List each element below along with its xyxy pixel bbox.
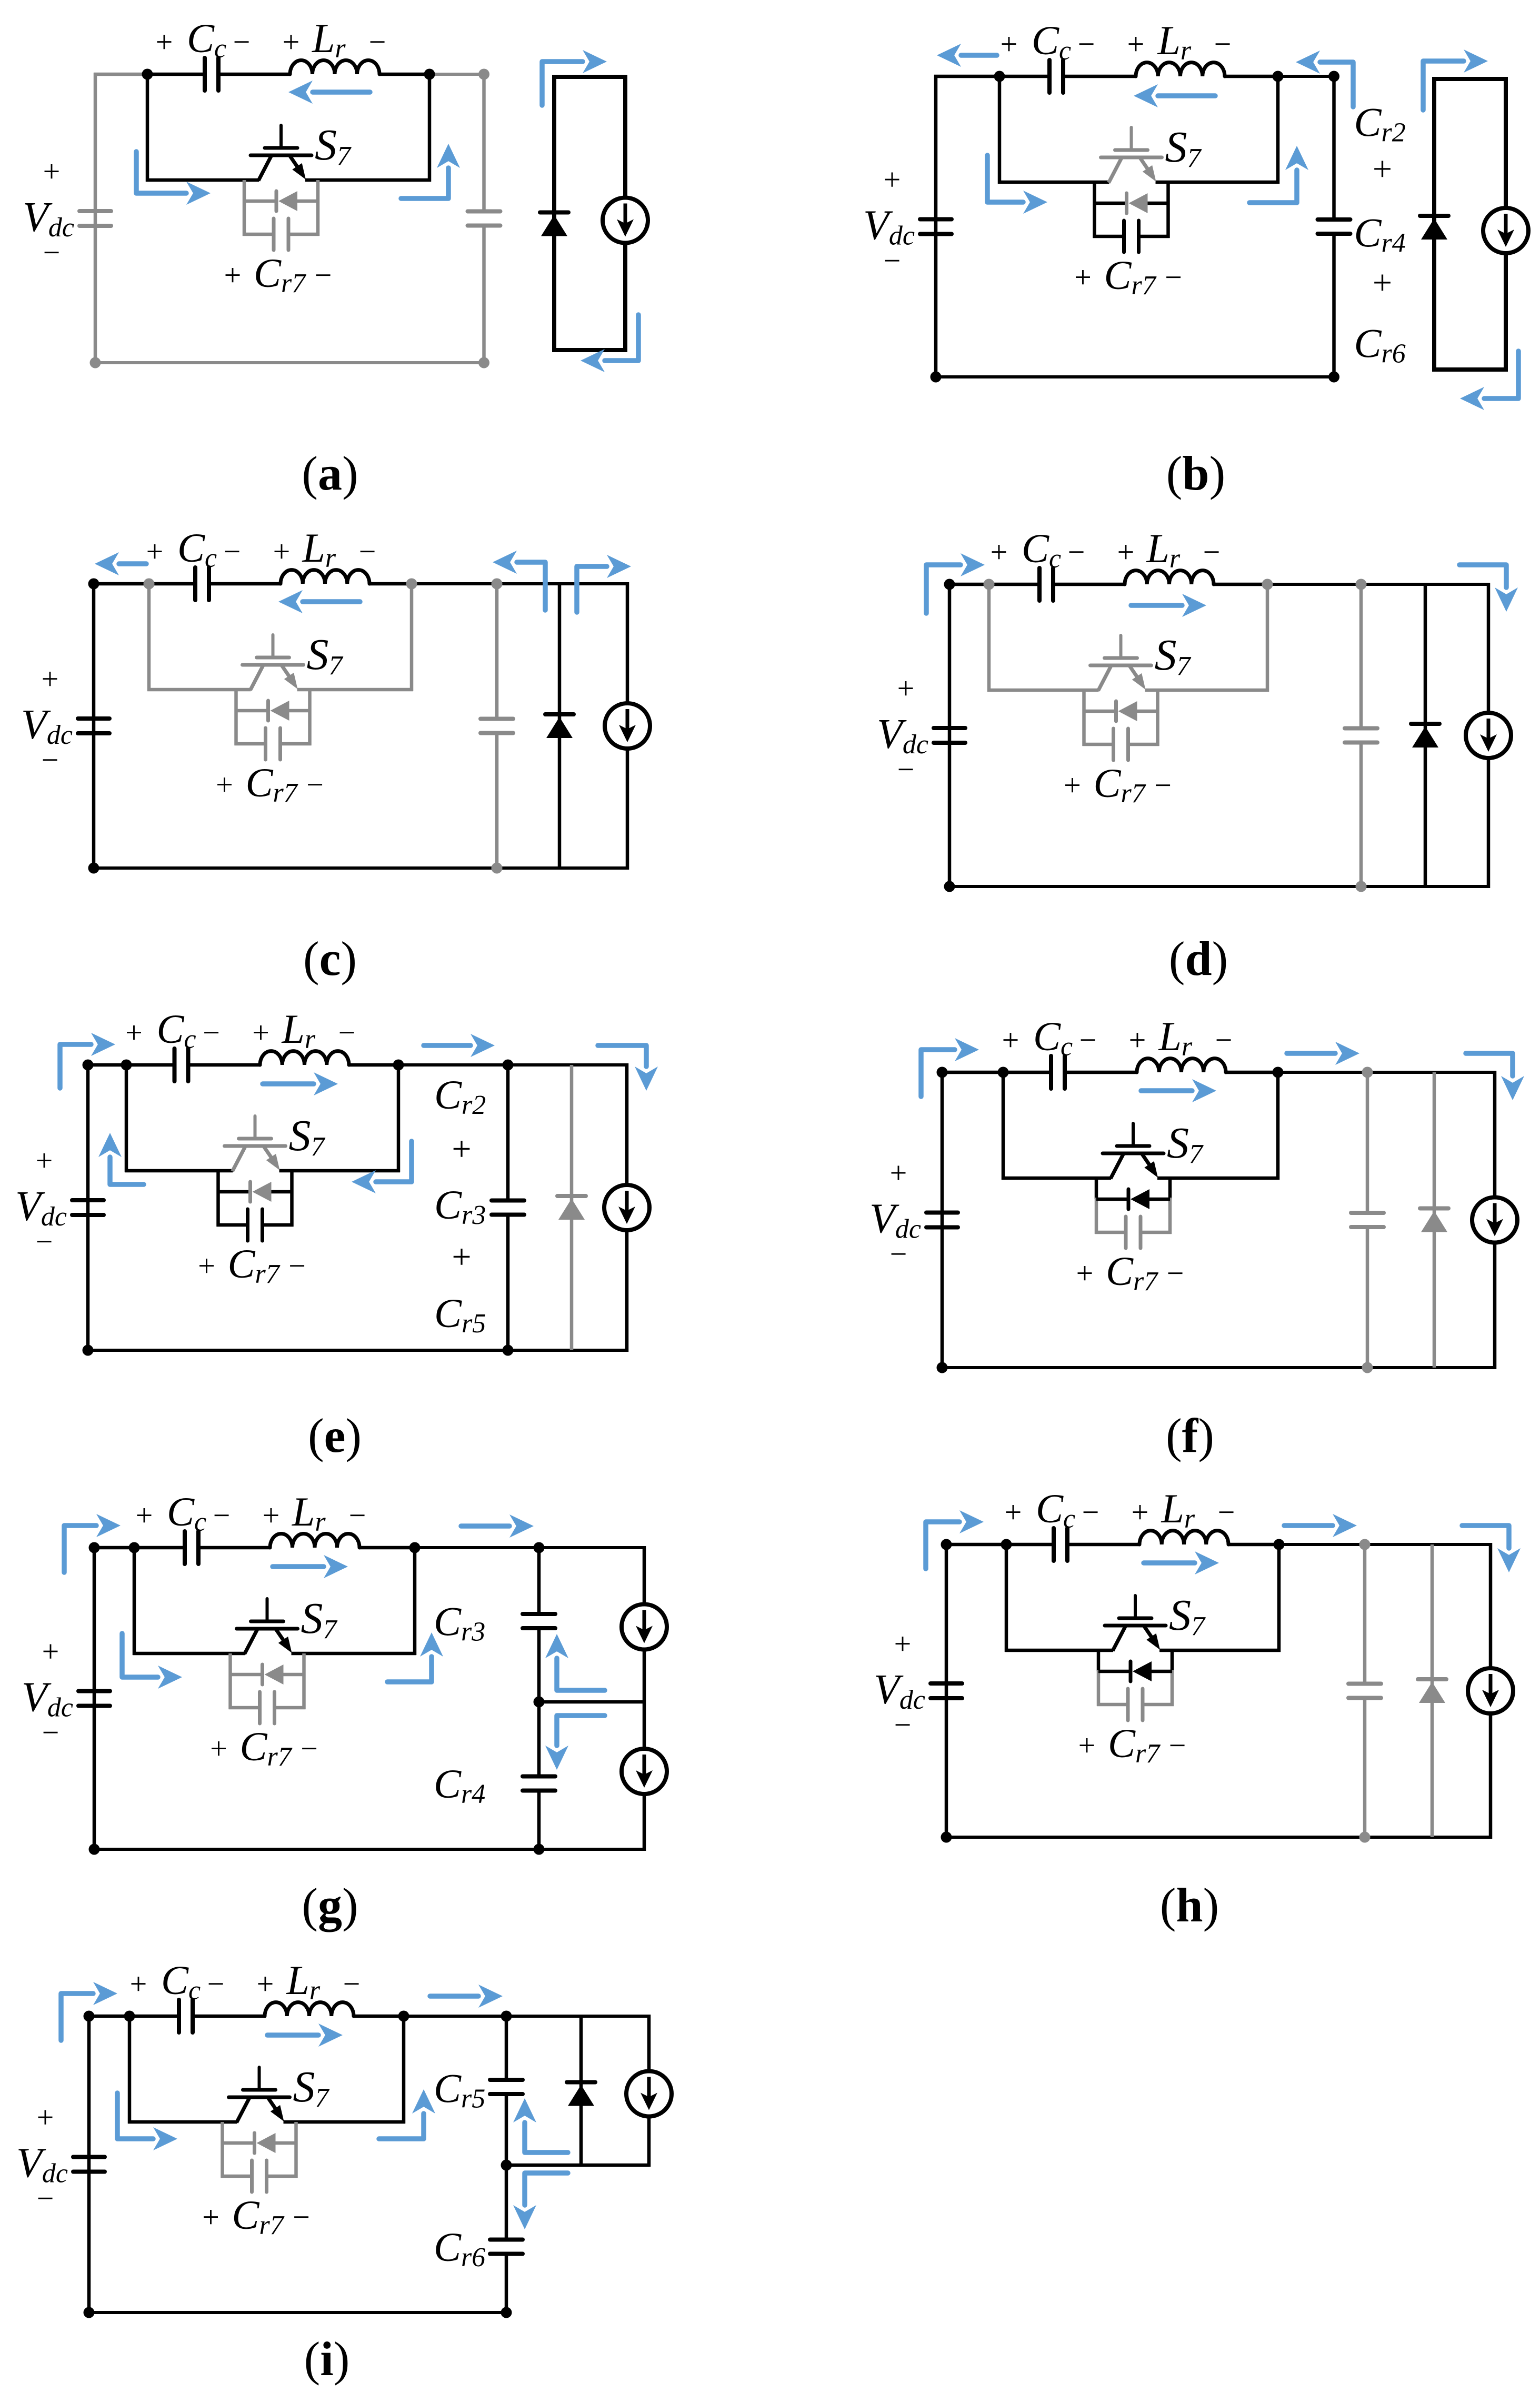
- svg-text:Lr: Lr: [1157, 17, 1192, 66]
- svg-text:Cc: Cc: [157, 1006, 196, 1054]
- wire snubber cap branch (c): [235, 742, 312, 746]
- node bottom-left corner (i): [84, 2307, 95, 2318]
- svg-text:+: +: [156, 25, 173, 59]
- node top-left corner (h): [941, 1539, 952, 1550]
- svg-text:Cc: Cc: [177, 525, 217, 573]
- wire diode branch vertical (e): [570, 1065, 574, 1350]
- current-flow arrow right under Lr (g): [273, 1555, 348, 1578]
- wire top rail node1-Cc (i): [129, 2015, 179, 2018]
- wire Lr-node2 (c): [369, 582, 412, 586]
- label Cr5 (e): [434, 1290, 486, 1339]
- capacitor Cr7 (a): [274, 218, 288, 250]
- wire output loop rectangle (a): [554, 77, 625, 350]
- output diode (i): [567, 2082, 595, 2106]
- svg-text:+: +: [1127, 27, 1145, 61]
- wire diode branch vertical (f): [1433, 1072, 1436, 1368]
- wire bottom rail (e): [86, 1349, 628, 1352]
- wire switch branch left vertical (e): [125, 1065, 128, 1172]
- node 2 (c): [406, 579, 417, 590]
- capacitor Cc (b): [1049, 60, 1063, 93]
- caption (h): [1160, 1878, 1219, 1932]
- svg-text:−: −: [306, 768, 324, 802]
- svg-text:+: +: [125, 1015, 143, 1050]
- (e) label + Cc −: [125, 1006, 220, 1054]
- node right cap bottom (a): [478, 357, 489, 368]
- node top-left corner (c): [88, 579, 99, 590]
- voltage source Vdc (e) label Vdc: [15, 1143, 67, 1259]
- wire bottom rail (f): [941, 1366, 1496, 1369]
- svg-text:S7: S7: [1165, 123, 1202, 173]
- wire snubber left stub (a): [243, 180, 246, 236]
- resonant capacitor branch (e): [492, 1201, 524, 1215]
- output diode (b): [1420, 216, 1448, 240]
- caption (a): [302, 446, 358, 500]
- wire snubber right stub (e): [290, 1171, 294, 1227]
- switch S7 label (g): [301, 1594, 338, 1644]
- svg-text:Lr: Lr: [292, 1489, 326, 1537]
- wire snubber left stub (h): [1097, 1650, 1101, 1706]
- wire top rail node1-Cc (g): [134, 1546, 185, 1550]
- current-flow arrow top-left right (d): [926, 553, 985, 613]
- wire top rail node1-Cc (c): [149, 582, 195, 586]
- capacitor Cc (g): [185, 1531, 198, 1564]
- current-flow arrow left mid right (g): [122, 1633, 182, 1689]
- svg-text:−: −: [1203, 535, 1221, 569]
- wire switch bottom right segment (a): [305, 178, 431, 182]
- wire switch branch right vertical (b): [1276, 76, 1280, 184]
- svg-text:−: −: [343, 1967, 361, 2001]
- svg-text:−: −: [213, 1498, 231, 1532]
- wire snubber cap branch (a): [243, 233, 319, 236]
- capacitor Cr7 (f): [1126, 1217, 1141, 1248]
- node 2 (i): [398, 2011, 409, 2022]
- (g) label + Lr −: [263, 1489, 366, 1537]
- node 1 (g): [129, 1542, 140, 1553]
- wire current source branch right edge (f): [1493, 1071, 1497, 1369]
- wire top rail node1-Cc (e): [126, 1063, 175, 1067]
- wire snubber left stub (b): [1093, 182, 1096, 238]
- svg-text:−: −: [1167, 1256, 1184, 1290]
- output diode (a): [540, 213, 568, 236]
- wire snubber left stub (c): [234, 690, 238, 745]
- wire snubber cap branch (g): [229, 1706, 306, 1710]
- node 2 (b): [1273, 71, 1284, 82]
- svg-text:+: +: [210, 1731, 227, 1766]
- wire snubber diode branch (f): [1096, 1198, 1170, 1201]
- svg-text:+: +: [452, 1130, 471, 1168]
- wire Lr-node2 (i): [354, 2015, 404, 2018]
- node right cap bottom (b): [1328, 372, 1339, 383]
- wire switch bottom left segment (h): [1005, 1649, 1113, 1652]
- capacitor Cr7 label (g): [210, 1723, 318, 1772]
- svg-text:Cr7: Cr7: [1094, 760, 1146, 809]
- inductor Lr (a): [290, 60, 379, 74]
- wire series-cap branch (g): [537, 1548, 541, 1849]
- wire snubber diode branch (c): [236, 709, 310, 713]
- voltage source Vdc (b) label Vdc: [863, 163, 915, 278]
- svg-text:Cc: Cc: [1032, 17, 1071, 66]
- wire switch bottom right segment (f): [1157, 1177, 1279, 1180]
- capacitor Cr7 (d): [1114, 729, 1128, 760]
- svg-text:−: −: [36, 1224, 53, 1259]
- wire diode branch vertical (h): [1431, 1544, 1434, 1837]
- wire left vertical + top-left rail segment (f): [941, 1071, 1003, 1369]
- wire current source branch right edge (c): [626, 582, 629, 870]
- inductor Lr (c): [281, 570, 369, 584]
- node cap branch bottom (d): [1356, 881, 1367, 892]
- svg-text:Cr2: Cr2: [434, 1072, 486, 1120]
- svg-text:+: +: [43, 154, 61, 188]
- current-flow arrow mid node down (i): [513, 2173, 568, 2229]
- output diode (h): [1418, 1679, 1446, 1703]
- current-flow arrow top-left right (h): [926, 1510, 984, 1569]
- wire mid horizontal (i): [506, 2164, 649, 2167]
- svg-text:−: −: [43, 235, 61, 270]
- label plus lower (e): [452, 1238, 471, 1276]
- wire snubber left stub (d): [1082, 690, 1086, 746]
- node top-left corner (b): [0, 0, 1, 1]
- node 2 (e): [393, 1060, 404, 1071]
- node cap branch top (d): [1356, 579, 1367, 590]
- wire switch branch left vertical (i): [128, 2016, 132, 2124]
- wire switch branch right vertical (c): [410, 584, 414, 691]
- transistor switch S7 (e): [225, 1116, 286, 1171]
- current-flow arrow mid node up (g): [545, 1634, 605, 1690]
- transistor switch S7 (h): [1105, 1596, 1166, 1651]
- current-flow arrow top-left right (g): [64, 1514, 121, 1572]
- node cap branch top (f): [1362, 1067, 1373, 1078]
- svg-text:−: −: [203, 1015, 220, 1050]
- wire switch bottom left segment (i): [128, 2120, 237, 2124]
- node 2 (g): [409, 1542, 421, 1553]
- (c) label + Lr −: [273, 525, 376, 573]
- wire right source branch (g): [643, 1546, 646, 1851]
- node 1 (c): [144, 579, 155, 590]
- svg-text:S7: S7: [301, 1594, 338, 1644]
- switch S7 label (b): [1165, 123, 1202, 173]
- wire switch bottom left segment (d): [987, 689, 1099, 692]
- resonant capacitor right branch (b): [1318, 220, 1351, 234]
- wire bottom rail (i): [87, 2311, 508, 2314]
- wire switch branch right vertical (e): [397, 1065, 401, 1172]
- voltage source Vdc (a): [79, 211, 111, 226]
- capacitor Cc (a): [205, 58, 218, 91]
- svg-text:−: −: [884, 244, 901, 278]
- wire switch bottom right segment (b): [1156, 181, 1280, 184]
- wire current source branch right edge (e): [625, 1063, 629, 1352]
- svg-text:+: +: [1129, 1023, 1146, 1057]
- wire Cc-Lr (i): [193, 2015, 265, 2018]
- wire snubber cap branch (h): [1097, 1703, 1174, 1707]
- (b) label + Cc −: [1001, 17, 1095, 66]
- anti-parallel diode of S7 (c): [268, 701, 289, 721]
- output current source (i): [626, 2071, 672, 2117]
- wire switch bottom right segment (h): [1159, 1649, 1281, 1652]
- svg-text:Lr: Lr: [312, 15, 346, 64]
- svg-text:Cr7: Cr7: [246, 760, 298, 808]
- current-flow arrow above rail right (f): [1287, 1042, 1359, 1065]
- wire left vertical + top-left rail segment (c): [92, 582, 149, 870]
- svg-text:Lr: Lr: [1146, 525, 1181, 574]
- wire snubber right stub (d): [1156, 690, 1159, 746]
- wire top rail node2-right (f): [1278, 1071, 1496, 1074]
- anti-parallel diode of S7 (g): [263, 1665, 284, 1685]
- svg-text:Cr6: Cr6: [434, 2224, 485, 2273]
- svg-text:S7: S7: [1155, 631, 1192, 681]
- transistor switch S7 (g): [237, 1599, 298, 1654]
- svg-text:−: −: [1218, 1495, 1235, 1529]
- anti-parallel diode of S7 (h): [1131, 1661, 1152, 1681]
- inductor Lr (g): [270, 1533, 359, 1548]
- capacitor Cc (c): [195, 567, 209, 600]
- voltage source Vdc (g) label Vdc: [22, 1634, 73, 1750]
- svg-text:−: −: [338, 1015, 356, 1050]
- node top-left corner (g): [89, 1542, 100, 1553]
- svg-text:Lr: Lr: [302, 525, 336, 573]
- wire snubber diode branch (a): [244, 200, 318, 203]
- svg-text:+: +: [1117, 535, 1135, 569]
- (a) label + Cc −: [156, 15, 251, 64]
- wire snubber cap branch (d): [1083, 743, 1159, 746]
- wire bottom rail (h): [945, 1836, 1492, 1839]
- wire Lr-node2 (f): [1226, 1071, 1278, 1074]
- svg-text:−: −: [1169, 1728, 1186, 1762]
- current-flow arrow top-left right (i): [61, 1982, 117, 2040]
- svg-text:Lr: Lr: [1158, 1013, 1193, 1062]
- wire top rail node1-Cc (h): [1006, 1543, 1054, 1547]
- wire switch bottom left segment (f): [1002, 1177, 1111, 1180]
- caption (f): [1166, 1409, 1214, 1462]
- voltage source Vdc (d) label Vdc: [877, 671, 928, 786]
- svg-text:+: +: [202, 2200, 219, 2234]
- svg-text:−: −: [315, 258, 332, 292]
- wire right cap branch vertical (a): [482, 74, 486, 363]
- current-flow arrow right mid up (i): [379, 2089, 435, 2139]
- svg-text:Cc: Cc: [161, 1957, 201, 2006]
- svg-text:Lr: Lr: [1161, 1486, 1195, 1534]
- (f) label + Lr −: [1129, 1013, 1233, 1062]
- wire snubber right stub (b): [1166, 182, 1170, 238]
- svg-text:+: +: [252, 1015, 269, 1050]
- svg-text:+: +: [42, 662, 59, 696]
- voltage source Vdc (h) label Vdc: [874, 1627, 925, 1742]
- svg-text:−: −: [301, 1731, 318, 1766]
- svg-text:−: −: [1079, 1023, 1097, 1057]
- current-flow arrow above rail right (i): [430, 1985, 503, 2008]
- label Cr4 (b): [1354, 210, 1406, 258]
- wire top rail node2-right (h): [1279, 1543, 1492, 1546]
- output current source (a): [603, 198, 648, 243]
- current-flow arrow right mid left (e): [352, 1141, 412, 1193]
- current source upper (g): [622, 1604, 667, 1650]
- capacitor Cr7 label (b): [1074, 252, 1182, 301]
- caption (i): [304, 2332, 350, 2386]
- node bottom-left corner (d): [944, 881, 955, 892]
- wire left vertical + top-left rail segment (i): [87, 2015, 129, 2314]
- node cap branch bottom (h): [1359, 1832, 1371, 1843]
- node bottom-left corner (h): [941, 1832, 952, 1843]
- current-flow arrow right under Lr (f): [1141, 1079, 1216, 1102]
- switch S7 label (d): [1155, 631, 1192, 681]
- current-flow arrow right top down (h): [1462, 1526, 1521, 1572]
- svg-text:+: +: [1064, 768, 1081, 802]
- current-flow arrow left mid up (e): [98, 1133, 144, 1184]
- svg-text:(g): (g): [302, 1878, 358, 1932]
- svg-text:−: −: [1082, 1495, 1099, 1529]
- wire snubber diode branch (e): [218, 1190, 292, 1194]
- current-flow arrow right top down (f): [1466, 1053, 1524, 1100]
- node top-left corner (d): [944, 579, 955, 590]
- wire snubber diode branch (b): [1095, 202, 1168, 205]
- wire switch branch right vertical (h): [1277, 1544, 1281, 1652]
- current-flow arrow above rail right (h): [1284, 1514, 1357, 1537]
- output current source (h): [1468, 1668, 1513, 1713]
- wire snubber left stub (i): [221, 2122, 224, 2178]
- current-flow arrow right elbow up (b): [1249, 146, 1308, 203]
- wire switch bottom left segment (b): [998, 181, 1109, 184]
- wire top rail node2-right (b): [1278, 75, 1336, 78]
- capacitor Cr3 (g): [523, 1614, 555, 1628]
- node 1 (i): [124, 2011, 135, 2022]
- wire source branch (i): [647, 2015, 651, 2167]
- label Cr5 (i): [434, 2066, 485, 2114]
- wire switch bottom right segment (d): [1145, 689, 1269, 692]
- wire top rail node1-Cc (a): [147, 73, 205, 76]
- (d) label + Cc −: [991, 525, 1085, 574]
- wire Cc-Lr (b): [1063, 75, 1136, 78]
- wire top rail node2-right (d): [1267, 583, 1490, 586]
- svg-text:Cr7: Cr7: [254, 250, 306, 298]
- wire snubber right stub (i): [294, 2122, 298, 2178]
- wire Cc-Lr (g): [198, 1546, 270, 1550]
- capacitor Cr7 (h): [1128, 1689, 1143, 1720]
- output current source (f): [1472, 1198, 1517, 1243]
- wire Cc-Lr (h): [1067, 1543, 1139, 1547]
- svg-text:+: +: [273, 534, 291, 569]
- caption (e): [308, 1409, 362, 1462]
- capacitor Cr7 label (e): [198, 1241, 306, 1289]
- svg-text:−: −: [42, 743, 59, 777]
- svg-text:(f): (f): [1166, 1409, 1214, 1462]
- capacitor Cc (d): [1039, 568, 1053, 601]
- svg-text:+: +: [257, 1967, 274, 2001]
- (i) label + Cc −: [130, 1957, 225, 2006]
- wire Cc-Lr (f): [1065, 1071, 1137, 1074]
- capacitor Cr7 label (f): [1076, 1248, 1184, 1297]
- caption (b): [1166, 446, 1225, 500]
- wire switch branch right vertical (g): [413, 1548, 417, 1655]
- wire switch bottom right segment (g): [292, 1652, 417, 1656]
- svg-text:+: +: [1373, 264, 1392, 302]
- svg-text:(i): (i): [304, 2332, 350, 2386]
- node cap branch bottom (e): [503, 1345, 514, 1356]
- switch S7 label (e): [289, 1111, 326, 1162]
- label Cr4 (g): [434, 1761, 485, 1809]
- svg-text:−: −: [37, 2181, 54, 2216]
- (h) label + Lr −: [1132, 1486, 1235, 1534]
- wire series-cap branch (i): [505, 2016, 508, 2313]
- wire bottom rail (c): [92, 866, 629, 870]
- svg-text:Cr3: Cr3: [434, 1599, 485, 1647]
- anti-parallel diode of S7 (e): [251, 1182, 272, 1202]
- anti-parallel diode of S7 (b): [1127, 193, 1148, 213]
- svg-text:−: −: [1078, 27, 1095, 61]
- inductor Lr (d): [1125, 571, 1214, 584]
- svg-text:(b): (b): [1166, 446, 1225, 500]
- wire resonant cap branch vertical (h): [1363, 1544, 1367, 1837]
- wire switch bottom right segment (c): [297, 688, 414, 692]
- svg-text:+: +: [136, 1498, 153, 1532]
- anti-parallel diode of S7 (f): [1128, 1189, 1149, 1209]
- node cap branch top (h): [1359, 1539, 1371, 1550]
- inductor Lr (b): [1136, 63, 1225, 76]
- svg-text:S7: S7: [307, 630, 344, 681]
- svg-text:−: −: [288, 1249, 306, 1283]
- current-flow arrow node2 top left (b): [1296, 51, 1353, 107]
- caption (d): [1169, 932, 1228, 985]
- node 2 (f): [1273, 1067, 1284, 1078]
- wire resonant cap branch vertical (e): [506, 1065, 510, 1350]
- capacitor Cr5 (i): [490, 2080, 523, 2094]
- wire switch branch left vertical (h): [1005, 1544, 1008, 1652]
- label Cr3 (g): [434, 1599, 485, 1647]
- svg-text:+: +: [42, 1634, 59, 1669]
- svg-text:−: −: [894, 1708, 912, 1742]
- resonant capacitor branch (c): [481, 719, 513, 733]
- svg-text:−: −: [207, 1967, 225, 2001]
- wire snubber right stub (a): [316, 180, 320, 236]
- current-flow arrow cap top left (c): [493, 551, 545, 610]
- svg-text:Cr7: Cr7: [1104, 252, 1157, 301]
- svg-text:+: +: [1132, 1495, 1149, 1529]
- current-flow arrow top-left right (e): [60, 1033, 115, 1088]
- wire snubber diode branch (i): [223, 2141, 296, 2145]
- wire left vertical + top-left rail segment (a): [94, 73, 147, 364]
- svg-text:−: −: [1215, 1023, 1233, 1057]
- transistor switch S7 (b): [1101, 127, 1162, 183]
- wire switch bottom right segment (i): [284, 2120, 406, 2124]
- node bottom-left corner (f): [937, 1362, 948, 1373]
- (b) label + Lr −: [1127, 17, 1232, 66]
- switch S7 label (f): [1167, 1119, 1204, 1169]
- wire left vertical + top-left rail segment (b): [934, 75, 999, 378]
- wire mid horizontal (g): [539, 1700, 646, 1704]
- capacitor Cr7 (g): [260, 1692, 275, 1723]
- svg-text:S7: S7: [1169, 1591, 1206, 1641]
- wire diode branch vertical (c): [558, 584, 562, 868]
- anti-parallel diode of S7 (i): [255, 2133, 276, 2153]
- output diode (f): [1420, 1209, 1448, 1232]
- node top-left corner (f): [937, 1067, 948, 1078]
- transistor switch S7 (i): [229, 2067, 290, 2122]
- label Cr2 (b): [1354, 99, 1406, 148]
- output current source (b): [1483, 208, 1528, 253]
- wire Cc-Lr (c): [209, 582, 281, 586]
- wire current source branch right edge (d): [1487, 583, 1491, 888]
- svg-text:(e): (e): [308, 1409, 362, 1462]
- svg-text:+: +: [216, 768, 233, 802]
- svg-text:Lr: Lr: [282, 1006, 316, 1054]
- wire snubber cap branch (f): [1095, 1231, 1172, 1234]
- svg-text:−: −: [890, 1237, 907, 1271]
- wire bottom rail (g): [93, 1848, 646, 1851]
- wire top rail node2-right (a): [429, 73, 486, 76]
- wire snubber left stub (f): [1095, 1178, 1098, 1234]
- voltage source Vdc (e): [72, 1200, 104, 1215]
- svg-text:Cc: Cc: [1033, 1013, 1073, 1062]
- svg-text:Cr4: Cr4: [434, 1761, 485, 1809]
- capacitor Cr7 label (c): [216, 760, 324, 808]
